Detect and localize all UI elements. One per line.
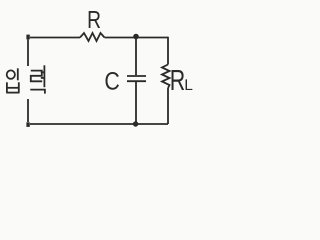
wire: left vertical upper segment: [27, 40, 29, 67]
glyph 력: [30, 65, 45, 93]
wire: capacitor branch lower lead: [135, 81, 137, 124]
glyph 입: [6, 68, 19, 92]
wire: top rail left segment: [30, 37, 80, 39]
label RL (load resistor): subscript L: [186, 79, 193, 90]
wire: right vertical lower (RL to bottom rail): [167, 88, 169, 124]
wire: bottom rail: [30, 123, 168, 125]
wire: right vertical upper (to RL): [167, 37, 169, 65]
wire: top rail right segment: [105, 37, 169, 39]
resistor R: [80, 33, 105, 41]
label 입력 (input), drawn as strokes: [6, 65, 45, 93]
resistor RL: [162, 65, 170, 89]
node: junction of C and bottom rail: [133, 121, 138, 126]
label R (series resistor): [89, 11, 100, 28]
label RL (load resistor): letter R: [172, 70, 185, 90]
label C (capacitor): [105, 72, 118, 90]
terminal: input bottom-left: [26, 122, 29, 127]
terminal: input top-left: [26, 35, 29, 40]
wire: left vertical lower segment: [27, 99, 29, 122]
capacitor C: [127, 76, 146, 81]
wire: capacitor branch upper lead: [135, 38, 137, 76]
node: junction of R, C and RL (top): [133, 34, 139, 40]
